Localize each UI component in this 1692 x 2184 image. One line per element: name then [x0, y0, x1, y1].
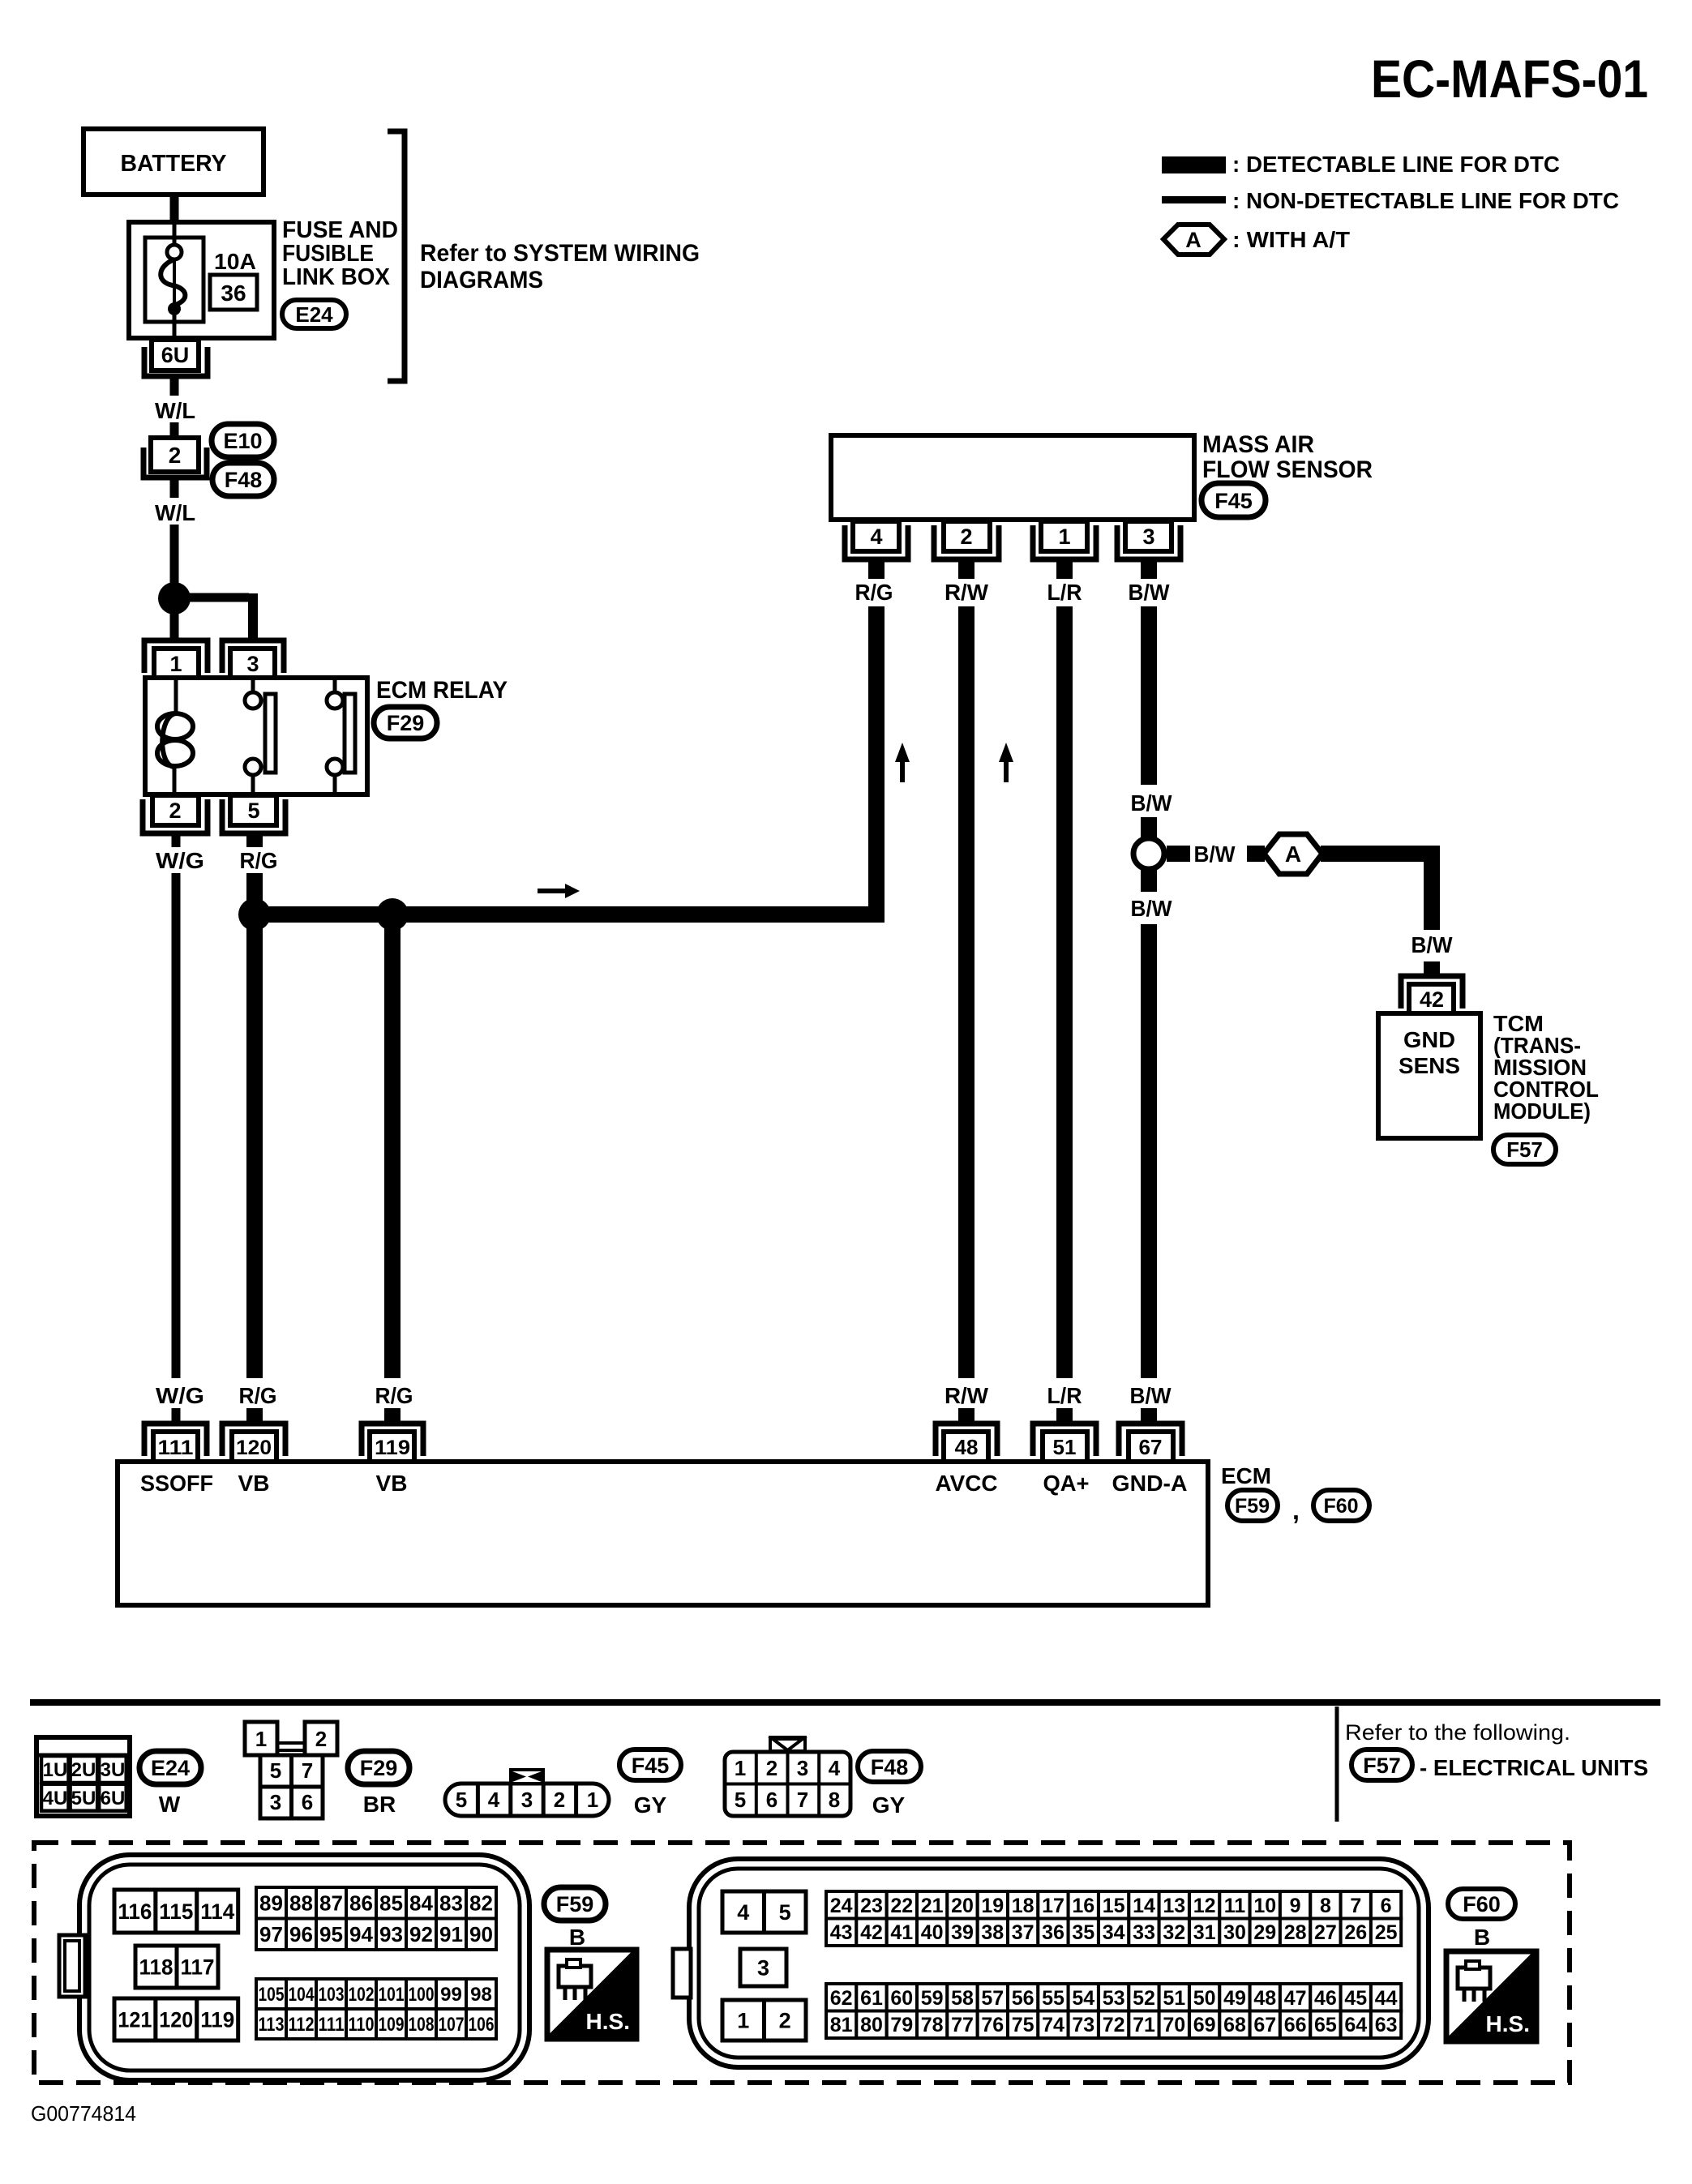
svg-text:41: 41	[890, 1921, 913, 1944]
F59 terminals 89-90	[256, 1887, 496, 1950]
svg-text:GND: GND	[1403, 1027, 1455, 1052]
svg-text:16: 16	[1072, 1895, 1094, 1917]
svg-text:4: 4	[870, 525, 882, 549]
svg-text:F48: F48	[871, 1755, 909, 1779]
svg-text:36: 36	[221, 280, 246, 306]
svg-text:B: B	[1474, 1925, 1490, 1950]
svg-text:97: 97	[259, 1922, 283, 1946]
svg-text:SSOFF: SSOFF	[140, 1471, 213, 1496]
svg-text:F57: F57	[1363, 1754, 1401, 1778]
svg-text:73: 73	[1072, 2014, 1094, 2036]
svg-text:6: 6	[766, 1788, 777, 1812]
svg-text:88: 88	[289, 1891, 313, 1916]
relay pin 1	[144, 640, 208, 673]
svg-text:99: 99	[440, 1984, 462, 2006]
wire stub B/W below MAFS pin 3	[1141, 561, 1157, 579]
svg-text:GY: GY	[872, 1792, 906, 1818]
svg-text:60: 60	[890, 1987, 913, 2010]
svg-text:10: 10	[1253, 1895, 1276, 1917]
svg-text:108: 108	[409, 2014, 435, 2036]
wire stub R/W below MAFS pin 2	[958, 561, 975, 579]
ECM pin 111	[144, 1424, 207, 1456]
svg-text:F60: F60	[1323, 1495, 1358, 1518]
svg-text:W: W	[159, 1792, 181, 1817]
junction dot R/G main	[238, 898, 271, 931]
svg-text:21: 21	[921, 1895, 944, 1917]
svg-text:B/W: B/W	[1131, 790, 1173, 816]
up arrow 1	[900, 757, 905, 782]
wire B/W hexagon to TCM	[1321, 846, 1440, 862]
svg-text:MODULE): MODULE)	[1493, 1098, 1591, 1124]
svg-text:98: 98	[470, 1984, 492, 2006]
svg-text:20: 20	[951, 1895, 974, 1917]
svg-text:2: 2	[554, 1788, 565, 1812]
wire W/L battery to fuse box	[170, 195, 179, 224]
relay coil	[174, 678, 178, 713]
svg-text:93: 93	[379, 1922, 403, 1946]
svg-text:69: 69	[1193, 2014, 1216, 2036]
svg-text:67: 67	[1139, 1435, 1163, 1459]
splice circle B/W	[1133, 838, 1164, 869]
svg-text:W/L: W/L	[155, 500, 195, 525]
svg-text:91: 91	[439, 1922, 463, 1946]
svg-text:71: 71	[1133, 2014, 1155, 2036]
svg-text:B: B	[569, 1925, 585, 1950]
svg-text:QA+: QA+	[1043, 1471, 1090, 1496]
svg-text:87: 87	[319, 1891, 343, 1916]
svg-text:L/R: L/R	[1047, 580, 1082, 605]
svg-text:54: 54	[1072, 1987, 1094, 2010]
wire W/L splice to junction	[170, 479, 179, 498]
svg-text:F29: F29	[360, 1756, 398, 1780]
wire B/W to ECM 67	[1141, 924, 1157, 1378]
svg-text:15: 15	[1103, 1895, 1125, 1917]
fuse and fusible link box E24	[129, 222, 274, 338]
F59 terminals 116-114	[114, 1890, 238, 1933]
TCM box	[1378, 1013, 1480, 1138]
svg-text:25: 25	[1375, 1921, 1398, 1944]
connector ref F45	[1202, 483, 1266, 517]
svg-text:SENS: SENS	[1399, 1053, 1460, 1078]
TCM pin 42	[1401, 976, 1463, 1008]
svg-text:67: 67	[1253, 2014, 1276, 2036]
svg-text:R/G: R/G	[375, 1383, 413, 1408]
svg-text:114: 114	[200, 1899, 234, 1924]
svg-text:115: 115	[159, 1899, 193, 1924]
mass air flow sensor F45	[831, 435, 1194, 520]
svg-text:W/L: W/L	[155, 398, 195, 423]
svg-text:1U: 1U	[43, 1759, 68, 1781]
svg-text:1: 1	[587, 1788, 598, 1812]
svg-text:57: 57	[981, 1987, 1004, 2010]
connector 6U	[144, 347, 208, 376]
svg-text:61: 61	[860, 1987, 883, 2010]
svg-text:78: 78	[921, 2014, 944, 2036]
connector ref E24	[139, 1751, 201, 1784]
wire stub to hexagon	[1247, 846, 1265, 862]
connector face F45	[445, 1770, 609, 1816]
svg-text:111: 111	[158, 1437, 194, 1459]
svg-text:103: 103	[319, 1984, 345, 2006]
svg-text:52: 52	[1133, 1987, 1155, 2010]
svg-text:102: 102	[349, 1984, 375, 2006]
svg-text:75: 75	[1012, 2014, 1034, 2036]
svg-text:F59: F59	[1235, 1495, 1270, 1518]
wire R/G horizontal run to MAFS pin 4	[255, 906, 876, 923]
svg-text:4: 4	[829, 1756, 841, 1780]
svg-text:46: 46	[1314, 1987, 1337, 2010]
svg-text:B/W: B/W	[1129, 580, 1171, 605]
svg-text:F57: F57	[1506, 1137, 1543, 1162]
up arrow 2	[1004, 757, 1009, 782]
svg-text:17: 17	[1042, 1895, 1064, 1917]
svg-text:118: 118	[139, 1955, 173, 1980]
divider line	[1335, 1707, 1339, 1822]
svg-text:EC-MAFS-01: EC-MAFS-01	[1371, 49, 1648, 109]
svg-text:1: 1	[735, 1756, 746, 1780]
ECM pin 120	[222, 1424, 285, 1456]
svg-text:94: 94	[349, 1922, 373, 1946]
svg-text:ECM RELAY: ECM RELAY	[376, 677, 508, 704]
svg-text:83: 83	[439, 1891, 463, 1916]
svg-text:70: 70	[1163, 2014, 1185, 2036]
svg-text:13: 13	[1163, 1895, 1185, 1917]
svg-text:76: 76	[981, 2014, 1004, 2036]
svg-text:30: 30	[1223, 1921, 1246, 1944]
F60 terminal 3	[740, 1949, 786, 1986]
svg-text:5: 5	[247, 799, 259, 823]
F60 tab	[673, 1949, 691, 1998]
H.S. mark F59	[547, 1950, 636, 2039]
svg-text:28: 28	[1284, 1921, 1307, 1944]
connector face F48	[725, 1737, 850, 1816]
svg-text:R/G: R/G	[855, 580, 893, 605]
svg-text:68: 68	[1223, 2014, 1246, 2036]
svg-text:2: 2	[766, 1756, 777, 1780]
svg-text:6U: 6U	[161, 343, 190, 367]
svg-text:37: 37	[1012, 1921, 1034, 1944]
svg-text:105: 105	[259, 1984, 285, 2006]
svg-text:86: 86	[349, 1891, 373, 1916]
relay pin 3	[222, 640, 284, 673]
dashed detail box	[34, 1843, 1570, 2083]
svg-text:120: 120	[159, 2008, 193, 2032]
svg-text:72: 72	[1103, 2014, 1125, 2036]
svg-text:5U: 5U	[71, 1788, 96, 1809]
svg-text:6: 6	[302, 1790, 313, 1814]
svg-text:47: 47	[1284, 1987, 1307, 2010]
connector face F29	[245, 1722, 337, 1818]
wire junction to relay pin 1	[170, 612, 179, 643]
svg-text:23: 23	[860, 1895, 883, 1917]
ECM connector face F60 outline	[689, 1859, 1429, 2067]
svg-text:R/G: R/G	[240, 848, 278, 873]
svg-text:84: 84	[409, 1891, 433, 1916]
svg-text:112: 112	[289, 2014, 315, 2036]
hexagon A with A/T	[1264, 834, 1322, 874]
connector ref F57	[1351, 1749, 1412, 1780]
connector ref F60	[1313, 1490, 1369, 1521]
separator line	[30, 1699, 1660, 1706]
svg-text:24: 24	[830, 1895, 853, 1917]
wire W/G stub below pin 2	[172, 832, 181, 847]
wire junction to relay pin 3	[186, 593, 249, 602]
svg-text:74: 74	[1042, 2014, 1064, 2036]
F60 terminals 24-25	[826, 1891, 1401, 1946]
svg-text:7: 7	[1350, 1895, 1361, 1917]
flow arrow right	[538, 889, 567, 893]
svg-text:: DETECTABLE LINE FOR DTC: : DETECTABLE LINE FOR DTC	[1232, 152, 1560, 177]
svg-text:3: 3	[521, 1788, 533, 1812]
svg-text:VB: VB	[238, 1471, 270, 1496]
svg-text:101: 101	[379, 1984, 405, 2006]
svg-text:1: 1	[1058, 525, 1070, 549]
battery	[84, 129, 263, 195]
F60 terminals 62-63	[826, 1984, 1401, 2038]
svg-text:B/W: B/W	[1130, 1383, 1172, 1408]
svg-text:48: 48	[1253, 1987, 1276, 2010]
svg-text:H.S.: H.S.	[586, 2009, 630, 2034]
svg-text:: NON-DETECTABLE LINE FOR DTC: : NON-DETECTABLE LINE FOR DTC	[1232, 188, 1619, 213]
svg-text:B/W: B/W	[1411, 932, 1454, 957]
svg-text:BR: BR	[363, 1792, 396, 1817]
svg-text:1: 1	[255, 1727, 267, 1751]
svg-text:R/W: R/W	[945, 1383, 989, 1408]
ECM pin 119	[362, 1424, 423, 1456]
svg-text:33: 33	[1133, 1921, 1155, 1944]
connector ref F48	[858, 1751, 921, 1782]
svg-text:55: 55	[1042, 1987, 1064, 2010]
svg-text:29: 29	[1253, 1921, 1276, 1944]
svg-text:3: 3	[270, 1790, 281, 1814]
svg-text:2: 2	[779, 2009, 791, 2033]
svg-text:48: 48	[955, 1435, 979, 1459]
svg-text:49: 49	[1223, 1987, 1246, 2010]
bracket refer to system wiring diagrams	[388, 131, 405, 381]
svg-text:Refer to the following.: Refer to the following.	[1345, 1720, 1570, 1745]
svg-text:: WITH A/T: : WITH A/T	[1232, 227, 1350, 252]
connector face E24	[36, 1737, 130, 1816]
svg-text:LINK BOX: LINK BOX	[282, 264, 391, 290]
svg-text:7: 7	[797, 1788, 808, 1812]
svg-text:65: 65	[1314, 2014, 1337, 2036]
svg-text:F45: F45	[1214, 489, 1253, 513]
svg-text:43: 43	[830, 1921, 853, 1944]
wire stub R/G below MAFS pin 4	[868, 561, 885, 579]
svg-text:A: A	[1285, 841, 1301, 867]
svg-text:VB: VB	[376, 1471, 408, 1496]
svg-text:1: 1	[169, 652, 182, 676]
svg-text:109: 109	[379, 2014, 405, 2036]
svg-text:DIAGRAMS: DIAGRAMS	[420, 267, 543, 293]
svg-text:F59: F59	[556, 1892, 594, 1916]
svg-text:90: 90	[469, 1922, 493, 1946]
MAFS pin 4	[845, 525, 908, 559]
svg-text:32: 32	[1163, 1921, 1185, 1944]
svg-text:27: 27	[1314, 1921, 1337, 1944]
svg-text:42: 42	[1420, 987, 1444, 1012]
svg-text:8: 8	[829, 1788, 840, 1812]
svg-text:62: 62	[830, 1987, 853, 2010]
F60 terminals 1-2	[722, 2000, 806, 2041]
svg-text:36: 36	[1042, 1921, 1064, 1944]
svg-text:117: 117	[181, 1955, 215, 1980]
wire L/R MAFS to ECM 51	[1056, 606, 1073, 1378]
svg-text:FLOW SENSOR: FLOW SENSOR	[1202, 456, 1373, 483]
F59 terminals 121-119	[114, 1998, 238, 2041]
svg-text:E10: E10	[223, 429, 262, 453]
wire W/G to ECM 111	[172, 873, 181, 1378]
svg-text:44: 44	[1375, 1987, 1398, 2010]
svg-text:110: 110	[349, 2014, 375, 2036]
legend thin line swatch	[1162, 196, 1226, 203]
svg-text:1: 1	[737, 2009, 749, 2033]
svg-text:GY: GY	[634, 1792, 667, 1818]
svg-text:19: 19	[981, 1895, 1004, 1917]
wire stub L/R below MAFS pin 1	[1056, 561, 1073, 579]
svg-text:F29: F29	[387, 711, 425, 735]
svg-text:66: 66	[1284, 2014, 1307, 2036]
svg-text:GND-A: GND-A	[1112, 1471, 1188, 1496]
svg-text:95: 95	[319, 1922, 343, 1946]
svg-text:80: 80	[860, 2014, 883, 2036]
svg-text:ECM: ECM	[1221, 1463, 1271, 1488]
svg-text:5: 5	[779, 1900, 791, 1925]
ECM relay F29	[145, 678, 367, 794]
svg-text:81: 81	[830, 2014, 853, 2036]
svg-text:E24: E24	[295, 302, 333, 327]
svg-text:51: 51	[1053, 1435, 1077, 1459]
connector ref F59	[544, 1887, 606, 1921]
relay contact bar left	[265, 694, 276, 773]
svg-text:104: 104	[289, 1984, 315, 2006]
svg-text:F45: F45	[632, 1754, 670, 1778]
svg-text:FUSIBLE: FUSIBLE	[282, 241, 374, 267]
svg-text:B/W: B/W	[1131, 896, 1173, 921]
svg-text:3: 3	[246, 652, 259, 676]
connector ref E24	[282, 300, 346, 328]
F59 terminals 118-117	[135, 1946, 218, 1988]
svg-text:58: 58	[951, 1987, 974, 2010]
svg-text:79: 79	[890, 2014, 913, 2036]
svg-text:FUSE AND: FUSE AND	[282, 217, 398, 243]
svg-text:22: 22	[890, 1895, 913, 1917]
svg-text:7: 7	[302, 1758, 313, 1783]
svg-text:R/W: R/W	[945, 580, 989, 605]
wire R/W MAFS to ECM 48	[958, 606, 975, 1378]
svg-text:42: 42	[860, 1921, 883, 1944]
ECM box F59 F60	[118, 1462, 1208, 1605]
svg-text:40: 40	[921, 1921, 944, 1944]
svg-text:9: 9	[1290, 1895, 1301, 1917]
junction dot R/G branch	[376, 898, 409, 931]
connector ref E10	[212, 424, 274, 457]
F59 terminals 105-106	[256, 1979, 496, 2039]
connector ref F48	[212, 463, 274, 496]
svg-text:92: 92	[409, 1922, 433, 1946]
svg-text:5: 5	[735, 1788, 746, 1812]
relay contact circles left	[251, 679, 255, 693]
svg-text:64: 64	[1344, 2014, 1367, 2036]
fuse number 36 box	[210, 275, 257, 310]
svg-text:2: 2	[169, 443, 182, 468]
svg-text:63: 63	[1375, 2014, 1398, 2036]
svg-text:5: 5	[270, 1758, 281, 1783]
svg-text:45: 45	[1344, 1987, 1367, 2010]
fuse 10A 36	[145, 238, 203, 322]
svg-text:53: 53	[1103, 1987, 1125, 2010]
relay contact bar right	[345, 694, 355, 773]
svg-text:G00774814: G00774814	[31, 2101, 136, 2126]
svg-text:59: 59	[921, 1987, 944, 2010]
relay pin 5	[222, 799, 285, 833]
svg-text:89: 89	[259, 1891, 283, 1916]
wire R/G stub below pin 5	[246, 832, 263, 847]
svg-text:31: 31	[1193, 1921, 1216, 1944]
junction dot	[158, 582, 191, 615]
svg-text:50: 50	[1193, 1987, 1216, 2010]
svg-text:L/R: L/R	[1047, 1383, 1082, 1408]
svg-text:116: 116	[118, 1899, 152, 1924]
svg-text:A: A	[1185, 228, 1202, 252]
svg-text:96: 96	[289, 1922, 313, 1946]
svg-text:12: 12	[1193, 1895, 1216, 1917]
ECM pin 48	[936, 1424, 997, 1456]
svg-text:106: 106	[469, 2014, 495, 2036]
svg-text:10A: 10A	[214, 249, 256, 274]
svg-text:5: 5	[456, 1788, 467, 1812]
svg-text:F60: F60	[1463, 1892, 1501, 1916]
ECM pin 67	[1119, 1424, 1182, 1456]
svg-text:2U: 2U	[71, 1759, 96, 1781]
F60 terminals 4-5	[722, 1891, 806, 1933]
svg-text:6U: 6U	[101, 1788, 126, 1809]
connector ref F60	[1448, 1889, 1515, 1919]
svg-text:56: 56	[1012, 1987, 1034, 2010]
svg-text:35: 35	[1072, 1921, 1094, 1944]
connector ref F57	[1493, 1135, 1556, 1164]
svg-text:26: 26	[1344, 1921, 1367, 1944]
svg-text:2: 2	[315, 1727, 327, 1751]
F59 tab	[59, 1935, 85, 1997]
ECM connector face F59 outline	[79, 1855, 529, 2080]
svg-text:R/G: R/G	[239, 1383, 277, 1408]
svg-text:3: 3	[797, 1756, 808, 1780]
svg-text:6: 6	[1381, 1895, 1392, 1917]
svg-text:119: 119	[200, 2008, 234, 2032]
relay contact circles right	[333, 679, 337, 693]
svg-text:Refer to SYSTEM WIRING: Refer to SYSTEM WIRING	[420, 240, 700, 267]
H.S. mark F60	[1446, 1951, 1536, 2041]
svg-text:H.S.: H.S.	[1486, 2011, 1530, 2036]
svg-text:- ELECTRICAL UNITS: - ELECTRICAL UNITS	[1420, 1755, 1648, 1780]
svg-text:4: 4	[488, 1788, 500, 1812]
svg-text:121: 121	[118, 2008, 152, 2032]
splice connector 2 E10/F48	[143, 448, 207, 477]
svg-text:BATTERY: BATTERY	[121, 151, 227, 177]
svg-text:E24: E24	[151, 1756, 190, 1780]
MAFS pin 1	[1033, 525, 1096, 559]
svg-text:82: 82	[469, 1891, 493, 1916]
svg-text:W/G: W/G	[156, 1383, 204, 1408]
wire R/G relay to ECM 120	[246, 873, 263, 1378]
wire stub right of splice	[1167, 846, 1190, 862]
svg-text:3U: 3U	[101, 1759, 126, 1781]
relay pin 2	[143, 799, 208, 833]
svg-text:100: 100	[409, 1984, 435, 2006]
svg-text:2: 2	[169, 799, 181, 823]
connector ref F59	[1227, 1490, 1278, 1521]
